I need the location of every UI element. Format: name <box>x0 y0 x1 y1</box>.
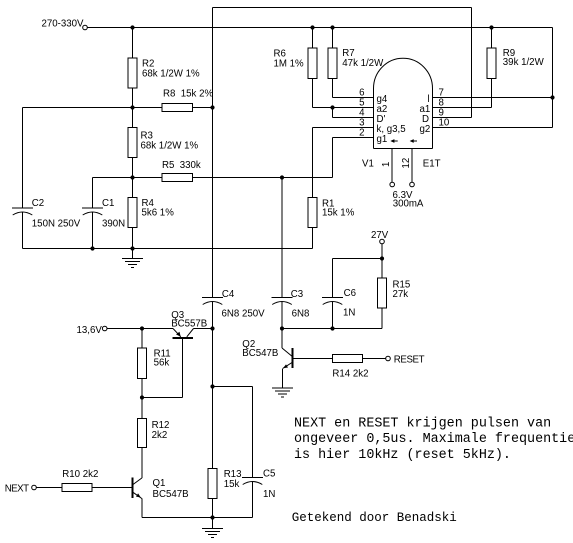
svg-text:300mA: 300mA <box>393 198 424 209</box>
svg-text:C5: C5 <box>263 468 275 479</box>
svg-text:68k 1/2W 1%: 68k 1/2W 1% <box>142 69 200 80</box>
svg-text:1: 1 <box>381 162 392 167</box>
svg-text:27V: 27V <box>371 230 389 241</box>
svg-text:5k6 1%: 5k6 1% <box>142 208 175 219</box>
svg-text:C4: C4 <box>222 289 235 300</box>
svg-text:15k 1%: 15k 1% <box>322 208 355 219</box>
svg-text:C1: C1 <box>102 198 114 209</box>
svg-text:NEXT: NEXT <box>5 483 29 494</box>
svg-text:1M 1%: 1M 1% <box>274 59 305 70</box>
svg-text:27k: 27k <box>393 289 409 300</box>
svg-text:6N8 250V: 6N8 250V <box>222 309 266 320</box>
svg-text:47k 1/2W: 47k 1/2W <box>342 58 384 69</box>
svg-text:NEXT en RESET krijgen pulsen v: NEXT en RESET krijgen pulsen van <box>294 416 551 431</box>
svg-text:R8 15k 2%: R8 15k 2% <box>163 89 213 100</box>
svg-text:R14 2k2: R14 2k2 <box>332 369 368 380</box>
svg-text:R5 330k: R5 330k <box>162 160 201 171</box>
svg-text:BC557B: BC557B <box>171 319 207 330</box>
svg-text:68k 1/2W 1%: 68k 1/2W 1% <box>141 141 199 152</box>
svg-text:12: 12 <box>401 158 412 169</box>
svg-text:1N: 1N <box>343 307 355 318</box>
svg-text:g1: g1 <box>377 134 388 145</box>
svg-text:390N: 390N <box>102 219 125 230</box>
svg-text:150N 250V: 150N 250V <box>32 219 81 230</box>
svg-text:6N8: 6N8 <box>292 309 310 320</box>
svg-text:C2: C2 <box>32 198 44 209</box>
svg-text:Getekend door Benadski: Getekend door Benadski <box>292 511 457 525</box>
svg-text:C6: C6 <box>344 288 356 299</box>
svg-text:1N: 1N <box>263 489 275 500</box>
svg-text:Q1: Q1 <box>153 478 166 489</box>
svg-text:56k: 56k <box>154 358 170 369</box>
svg-text:270-330V: 270-330V <box>42 19 85 30</box>
svg-text:C3: C3 <box>291 289 303 300</box>
svg-text:ongeveer 0,5us. Maximale frequ: ongeveer 0,5us. Maximale frequentie <box>294 432 573 447</box>
svg-text:E1T: E1T <box>423 158 441 169</box>
svg-text:39k 1/2W: 39k 1/2W <box>503 57 545 68</box>
svg-text:BC547B: BC547B <box>242 348 278 359</box>
svg-text:is hier 10kHz (reset 5kHz).: is hier 10kHz (reset 5kHz). <box>294 448 511 463</box>
svg-text:V1: V1 <box>362 158 374 169</box>
svg-text:13,6V: 13,6V <box>77 325 103 336</box>
svg-text:15k: 15k <box>224 479 240 490</box>
svg-text:RESET: RESET <box>394 355 425 366</box>
svg-text:2k2: 2k2 <box>152 430 168 441</box>
svg-text:10: 10 <box>439 118 450 129</box>
svg-text:BC547B: BC547B <box>153 489 189 500</box>
svg-text:g2: g2 <box>420 124 431 135</box>
svg-text:R10 2k2: R10 2k2 <box>62 469 98 480</box>
svg-text:2: 2 <box>359 128 364 139</box>
